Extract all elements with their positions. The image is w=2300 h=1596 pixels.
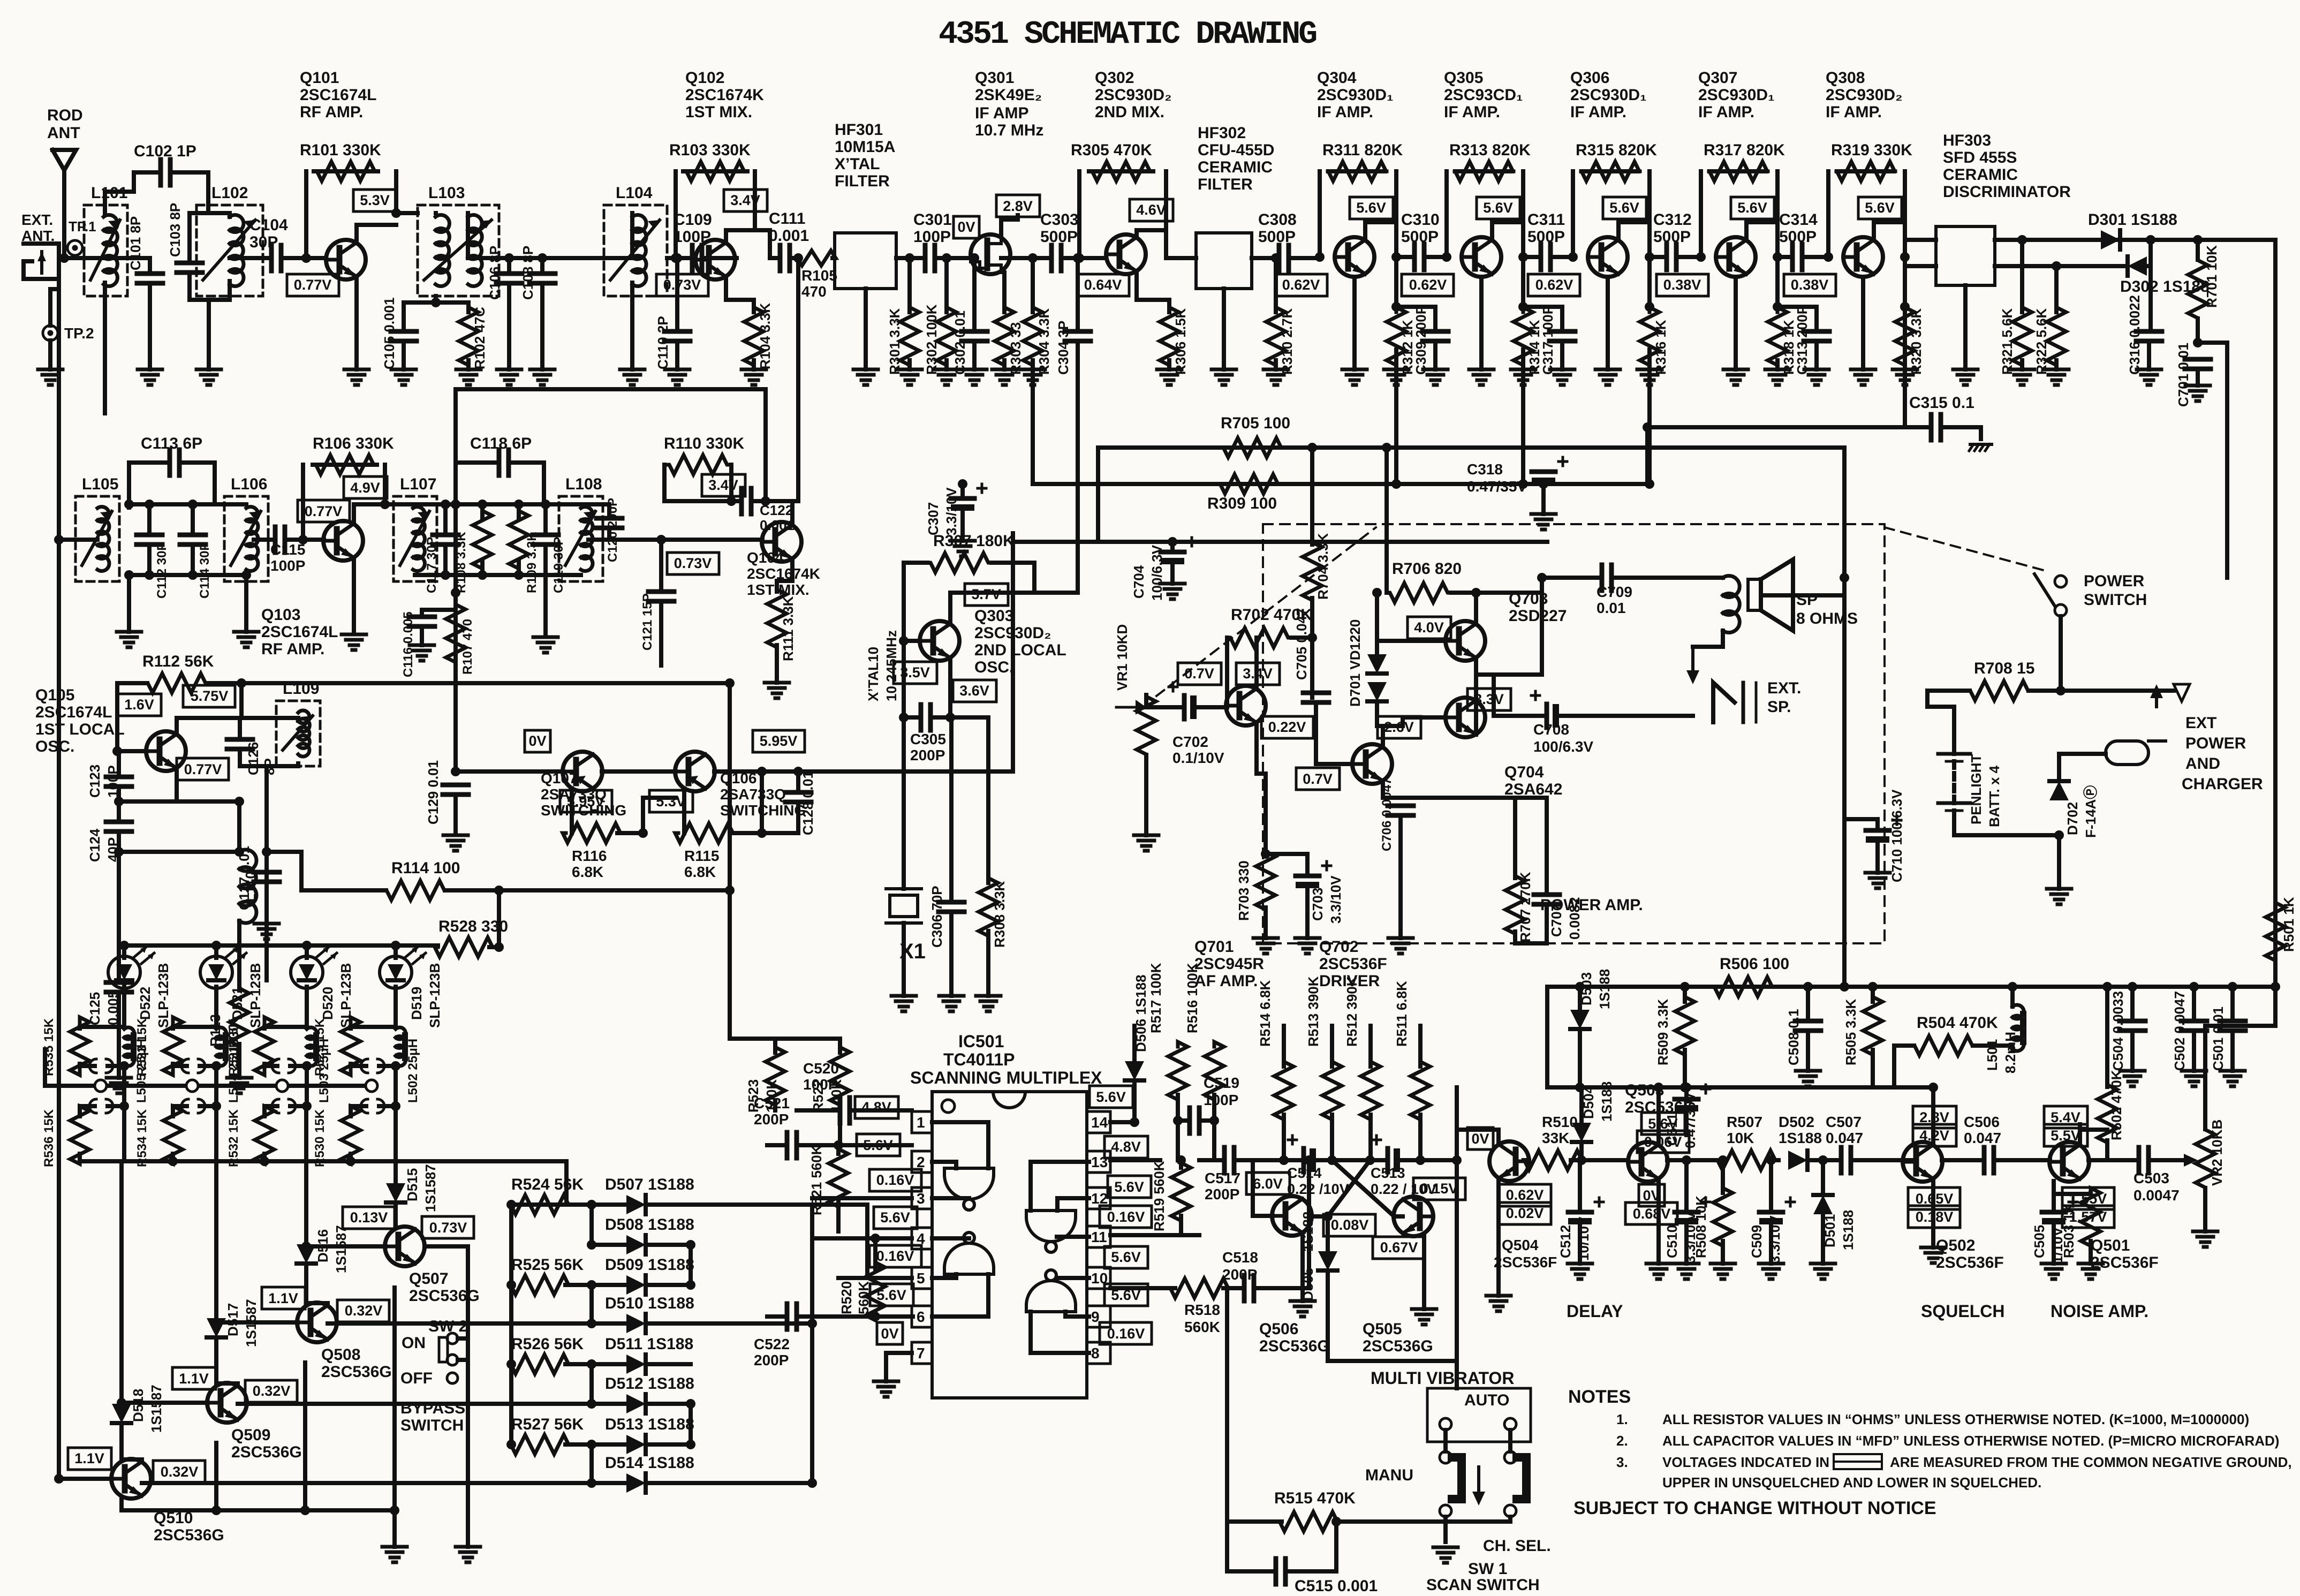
wire xyxy=(1398,815,1403,938)
wire xyxy=(148,258,152,274)
capacitor C110 xyxy=(664,329,690,334)
svg-text:C312: C312 xyxy=(1653,211,1692,229)
resistor R707 xyxy=(1505,876,1525,934)
wire xyxy=(228,281,232,300)
svg-text:C502 0.0047: C502 0.0047 xyxy=(2172,991,2188,1071)
wire xyxy=(1164,171,1168,230)
junction xyxy=(298,535,308,544)
resistor R503 xyxy=(2081,1188,2100,1246)
transistor Q509 xyxy=(207,1383,247,1423)
svg-text:NOTES: NOTES xyxy=(1568,1387,1631,1407)
wire xyxy=(588,538,609,542)
svg-text:Q505: Q505 xyxy=(1363,1320,1402,1338)
svg-text:R521 560K: R521 560K xyxy=(808,1145,824,1215)
junction xyxy=(1372,588,1382,597)
junction xyxy=(905,253,914,263)
junction xyxy=(1518,252,1528,262)
wire xyxy=(674,171,678,258)
IC IC501 xyxy=(932,1092,1087,1398)
wire xyxy=(228,213,232,217)
wire xyxy=(1031,258,1035,312)
diode D502 xyxy=(1788,1151,1807,1170)
capacitor C709 xyxy=(1600,565,1605,591)
wire xyxy=(1310,598,1314,638)
svg-text:4.9V: 4.9V xyxy=(350,480,380,496)
svg-text:EXT.: EXT. xyxy=(1767,679,1801,697)
wire xyxy=(838,1108,842,1113)
junction xyxy=(237,678,246,688)
svg-text:OSC.: OSC. xyxy=(35,738,74,755)
svg-text:R303 33: R303 33 xyxy=(1008,322,1024,375)
wire xyxy=(402,341,406,369)
junction xyxy=(1803,982,1813,992)
svg-text:C705 0.047: C705 0.047 xyxy=(1293,608,1310,680)
transistor Q704 xyxy=(1446,698,1485,737)
svg-text:2SC536G: 2SC536G xyxy=(1259,1337,1330,1355)
svg-text:ANT: ANT xyxy=(47,124,80,142)
svg-text:C126: C126 xyxy=(245,742,261,775)
svg-text:100P: 100P xyxy=(913,228,951,246)
junction xyxy=(302,1061,312,1071)
svg-text:2SC930D₂: 2SC930D₂ xyxy=(974,624,1051,642)
junction xyxy=(478,500,487,509)
voltage 0.77V xyxy=(298,500,350,522)
wire xyxy=(127,504,131,508)
capacitor C509 xyxy=(1759,1210,1783,1215)
svg-text:R311 820K: R311 820K xyxy=(1322,141,1403,159)
voltage 4.0V xyxy=(1408,617,1451,639)
junction xyxy=(1682,1083,1691,1092)
capacitor C112 xyxy=(137,533,162,538)
wire xyxy=(1227,1519,1282,1524)
rod antenna xyxy=(52,150,76,170)
junction xyxy=(514,570,524,580)
wire xyxy=(1028,1162,1033,1211)
svg-text:C522: C522 xyxy=(754,1336,790,1352)
wire xyxy=(592,1362,626,1366)
wire xyxy=(948,593,952,622)
svg-text:IF AMP.: IF AMP. xyxy=(1826,103,1882,121)
ground xyxy=(1134,834,1159,837)
wire xyxy=(1683,987,1687,1002)
junction xyxy=(1575,982,1585,992)
svg-text:2ND LOCAL: 2ND LOCAL xyxy=(974,641,1066,659)
junction xyxy=(1391,252,1401,262)
wire xyxy=(1571,171,1575,257)
wire xyxy=(175,771,179,801)
voltage 0.16V xyxy=(1100,1322,1152,1344)
svg-text:R701 10K: R701 10K xyxy=(2204,245,2220,308)
capacitor C101 xyxy=(137,271,163,276)
svg-text:8: 8 xyxy=(1091,1345,1100,1361)
wire xyxy=(134,170,161,175)
wire xyxy=(1001,256,1051,260)
capacitor C506 xyxy=(1982,1147,1987,1173)
wire xyxy=(767,1143,787,1147)
wire xyxy=(646,1481,691,1485)
svg-text:MULTI VIBRATOR: MULTI VIBRATOR xyxy=(1371,1368,1514,1388)
resistor R108 xyxy=(473,511,492,569)
wire xyxy=(1995,264,2101,268)
transistor Q104 xyxy=(762,522,801,562)
svg-text:500P: 500P xyxy=(1258,228,1296,246)
ground xyxy=(1804,368,1829,372)
svg-text:Q307: Q307 xyxy=(1698,69,1737,87)
ground xyxy=(2193,1230,2218,1234)
wire xyxy=(117,749,146,753)
svg-text:3.6V: 3.6V xyxy=(959,683,989,699)
wire xyxy=(115,683,119,751)
resistor R532 xyxy=(255,1106,274,1164)
wire xyxy=(1521,171,1525,257)
wire xyxy=(1541,484,1546,514)
wire xyxy=(1560,307,1564,331)
wire xyxy=(726,298,754,302)
capacitor C704 xyxy=(1161,550,1184,555)
svg-text:0.16V: 0.16V xyxy=(876,1248,914,1264)
svg-text:C305: C305 xyxy=(910,731,946,747)
wire xyxy=(415,573,581,577)
voltage 0.62V xyxy=(1528,274,1580,296)
junction xyxy=(2128,982,2137,992)
ground xyxy=(1550,368,1575,372)
wire xyxy=(730,831,762,835)
svg-text:C123: C123 xyxy=(87,765,103,798)
wire xyxy=(191,544,195,575)
resistor R115 xyxy=(675,823,733,843)
svg-text:2SK49E₂: 2SK49E₂ xyxy=(975,86,1042,104)
svg-text:C315 0.1: C315 0.1 xyxy=(1909,394,1974,412)
capacitor C125 xyxy=(106,980,132,985)
wire xyxy=(2203,1026,2207,1129)
wire xyxy=(1540,578,1544,675)
wire xyxy=(304,1264,308,1303)
svg-text:L107: L107 xyxy=(400,475,436,493)
voltage 0.16V xyxy=(869,1245,921,1267)
svg-text:10M15A: 10M15A xyxy=(835,138,895,156)
wire xyxy=(836,1145,841,1154)
svg-text:Q301: Q301 xyxy=(975,69,1014,87)
ground xyxy=(443,834,468,837)
wire xyxy=(1144,695,1148,707)
wire xyxy=(702,256,737,260)
capacitor C116 xyxy=(409,615,435,619)
wire xyxy=(763,389,768,501)
wire xyxy=(351,1064,366,1068)
svg-text:R111 3.3K: R111 3.3K xyxy=(780,596,796,661)
junction xyxy=(188,500,198,509)
resistor R317 xyxy=(1709,162,1768,181)
svg-text:0V: 0V xyxy=(1471,1131,1489,1147)
capacitor C511 xyxy=(1675,1097,1698,1102)
resistor R305 xyxy=(1089,162,1153,181)
wire xyxy=(1336,1519,1510,1524)
wire xyxy=(349,1064,353,1066)
svg-text:R304 3.3K: R304 3.3K xyxy=(1036,308,1052,375)
wire xyxy=(122,1508,395,1512)
svg-text:2SC1674L: 2SC1674L xyxy=(261,623,338,641)
svg-text:8 OHMS: 8 OHMS xyxy=(1796,610,1858,627)
capacitor C515 xyxy=(1274,1559,1278,1584)
wire xyxy=(1616,222,1621,240)
wire xyxy=(458,1358,468,1362)
wire xyxy=(775,645,779,683)
resistor R303 xyxy=(995,307,1014,365)
svg-text:R505 3.3K: R505 3.3K xyxy=(1843,999,1859,1065)
svg-text:11: 11 xyxy=(1091,1229,1107,1245)
svg-text:1.1V: 1.1V xyxy=(179,1371,209,1387)
battery PENLIGHT BATT x4 xyxy=(1938,752,1970,756)
svg-text:L102: L102 xyxy=(211,184,248,202)
wire xyxy=(1521,257,1525,307)
svg-text:SCANNING MULTIPLEX: SCANNING MULTIPLEX xyxy=(910,1068,1102,1087)
ground xyxy=(853,368,878,372)
svg-text:6: 6 xyxy=(917,1308,925,1325)
svg-text:R511 6.8K: R511 6.8K xyxy=(1394,981,1410,1047)
wire xyxy=(1524,1158,1526,1162)
wire xyxy=(932,1196,969,1200)
wire xyxy=(630,213,634,258)
wire xyxy=(1264,774,1268,854)
svg-text:ON: ON xyxy=(402,1334,426,1352)
wire xyxy=(1383,796,1515,800)
wire xyxy=(443,504,448,535)
svg-text:12: 12 xyxy=(1091,1190,1108,1207)
resistor R524 xyxy=(511,1195,569,1214)
wire xyxy=(80,1025,124,1029)
wire xyxy=(236,1381,240,1386)
wire xyxy=(1542,576,1602,580)
voltage 0.38V xyxy=(1784,274,1836,296)
wire xyxy=(865,1205,869,1278)
svg-text:C122: C122 xyxy=(760,502,793,518)
junction xyxy=(587,1359,596,1369)
capacitor C303 xyxy=(1049,245,1054,271)
svg-text:IF AMP.: IF AMP. xyxy=(1317,103,1373,121)
svg-text:R536 15K: R536 15K xyxy=(42,1109,56,1167)
svg-text:0.77V: 0.77V xyxy=(305,503,343,519)
wire xyxy=(2203,1188,2207,1231)
wire xyxy=(190,211,230,215)
wire xyxy=(1300,1235,1305,1301)
capacitor C504 xyxy=(2120,1019,2145,1024)
wire xyxy=(972,341,977,369)
junction xyxy=(1680,982,1690,992)
wire xyxy=(1821,1214,1825,1264)
svg-text:R704 3.3K: R704 3.3K xyxy=(1315,533,1331,600)
capacitor C522 xyxy=(785,1304,790,1329)
wire xyxy=(301,888,386,892)
wire xyxy=(1513,932,1517,943)
wire xyxy=(770,256,780,260)
svg-text:Q504: Q504 xyxy=(1502,1237,1539,1253)
wire xyxy=(602,769,676,774)
svg-text:560K: 560K xyxy=(856,1281,872,1314)
diode D515 xyxy=(386,1183,405,1202)
resistor R517 xyxy=(1168,1042,1187,1100)
wire xyxy=(1254,1286,1309,1290)
svg-text:0.73V: 0.73V xyxy=(429,1220,467,1236)
voltage 5.6V xyxy=(1477,197,1520,219)
wire xyxy=(84,256,150,260)
svg-text:R707 270K: R707 270K xyxy=(1517,872,1533,942)
resistor R101 xyxy=(314,162,378,181)
wire xyxy=(507,258,511,274)
wire xyxy=(565,1283,592,1287)
junction xyxy=(899,636,909,646)
NAND gate A xyxy=(944,1168,994,1175)
transistor Q503 xyxy=(1628,1142,1668,1182)
wire xyxy=(1426,1158,1457,1162)
svg-text:R302 100K: R302 100K xyxy=(924,304,940,375)
svg-text:C506: C506 xyxy=(1964,1114,2000,1130)
voltage 0.64V xyxy=(1077,274,1129,296)
svg-text:14: 14 xyxy=(1091,1114,1108,1131)
wire xyxy=(466,302,471,312)
svg-text:IF AMP.: IF AMP. xyxy=(1444,103,1500,121)
junction xyxy=(211,1318,221,1327)
capacitor C318 xyxy=(1532,470,1555,474)
wire xyxy=(1225,1288,1229,1522)
ext speaker jack xyxy=(1713,683,1735,722)
wire xyxy=(1433,307,1437,331)
wire xyxy=(777,579,792,583)
junction xyxy=(1315,252,1325,262)
wire xyxy=(237,1044,241,1078)
svg-text:SWITCH: SWITCH xyxy=(2084,591,2147,609)
inductor L103 xyxy=(418,205,499,296)
transistor Q306 xyxy=(1588,237,1628,277)
wire xyxy=(326,1301,330,1305)
voltage 2.8V xyxy=(996,195,1040,217)
wire xyxy=(306,1244,385,1249)
resistor R529 xyxy=(341,1017,360,1075)
svg-text:5.95V: 5.95V xyxy=(760,733,798,749)
wire xyxy=(1606,277,1610,369)
voltage 0V xyxy=(525,730,550,752)
wire xyxy=(907,360,912,369)
wire xyxy=(1905,264,1936,268)
svg-text:2SC536F: 2SC536F xyxy=(1494,1254,1557,1270)
wire xyxy=(1222,289,1226,369)
ground xyxy=(2137,368,2161,372)
junction xyxy=(587,1319,596,1328)
svg-text:1S188: 1S188 xyxy=(1599,1081,1615,1122)
voltage 5.6V xyxy=(870,1284,913,1306)
wire xyxy=(689,1404,693,1444)
transistor Q510 xyxy=(111,1459,151,1499)
wire xyxy=(1137,228,1166,232)
junction xyxy=(725,886,735,895)
wire xyxy=(305,1064,309,1106)
resistor R501 xyxy=(2266,902,2285,961)
speaker SP xyxy=(1723,576,1739,597)
svg-text:5.5V: 5.5V xyxy=(2051,1128,2080,1144)
inductor L107 xyxy=(394,496,437,581)
resistor R513 xyxy=(1322,1062,1342,1120)
svg-text:5.6V: 5.6V xyxy=(1865,200,1895,216)
wire xyxy=(466,1246,470,1547)
wire xyxy=(646,1362,691,1366)
wire xyxy=(1769,1224,1773,1264)
wire xyxy=(1383,724,1403,728)
voltage 2.6V xyxy=(1378,716,1421,738)
wire xyxy=(1251,1160,1255,1216)
wire xyxy=(1842,985,1847,989)
wire xyxy=(609,538,762,542)
wire xyxy=(2147,264,2151,268)
wire xyxy=(122,1401,208,1405)
wire xyxy=(751,499,798,503)
svg-text:D512 1S188: D512 1S188 xyxy=(605,1375,694,1393)
svg-text:L104: L104 xyxy=(616,184,653,202)
junction xyxy=(300,1506,310,1515)
wire xyxy=(1002,360,1007,369)
junction xyxy=(2102,982,2112,992)
wire xyxy=(1775,257,1780,307)
inductor L104 xyxy=(604,205,667,296)
svg-text:C111: C111 xyxy=(769,210,805,228)
wire xyxy=(2105,987,2109,1087)
wire xyxy=(662,465,667,501)
pin 5 xyxy=(912,1267,932,1289)
junction xyxy=(1818,1155,1828,1165)
voltage 3.5V xyxy=(894,662,937,684)
junction xyxy=(587,1200,596,1209)
inductor L110 xyxy=(239,850,256,871)
wire xyxy=(1381,726,1385,747)
svg-text:X’TAL: X’TAL xyxy=(835,155,880,173)
wire xyxy=(1647,350,1652,484)
wire xyxy=(1455,169,1512,173)
wire xyxy=(1326,1216,1330,1251)
ext antenna jack xyxy=(24,244,59,279)
junction xyxy=(1518,479,1528,489)
voltage 0.02V xyxy=(1499,1202,1551,1224)
wire xyxy=(902,641,906,717)
capacitor C308 xyxy=(1277,245,1282,271)
wire xyxy=(306,1301,328,1305)
capacitor C124 xyxy=(106,820,132,825)
capacitor C508 xyxy=(1795,1019,1821,1024)
wire xyxy=(797,1314,912,1319)
svg-text:0.1/10V: 0.1/10V xyxy=(1172,750,1224,766)
transistor Q302 xyxy=(1106,235,1146,274)
junction xyxy=(1718,1155,1728,1165)
svg-text:R112 56K: R112 56K xyxy=(142,653,214,670)
wire xyxy=(2130,987,2135,1021)
svg-text:C128 0.01: C128 0.01 xyxy=(800,771,816,835)
wire xyxy=(187,213,192,263)
wire xyxy=(543,575,548,634)
wire xyxy=(1523,305,1562,309)
wire xyxy=(948,660,952,717)
wire xyxy=(1941,425,1981,429)
svg-text:4.6V: 4.6V xyxy=(1136,202,1166,218)
wire xyxy=(592,1202,626,1207)
svg-text:Q704: Q704 xyxy=(1504,763,1544,781)
wire xyxy=(50,287,59,291)
svg-text:5: 5 xyxy=(917,1270,925,1287)
pin 6 xyxy=(912,1306,932,1327)
diode D505 xyxy=(1318,1251,1337,1270)
diode D701 xyxy=(1367,654,1387,674)
capacitor C111 xyxy=(778,245,783,271)
wire xyxy=(752,360,756,369)
wire xyxy=(239,683,244,718)
wire xyxy=(434,296,438,302)
junction xyxy=(1577,1155,1586,1165)
